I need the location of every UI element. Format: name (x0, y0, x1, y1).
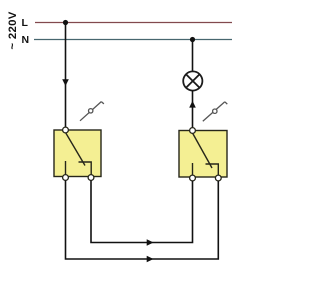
switch S1 right contact (79, 162, 92, 175)
switch S1 terminal B (88, 175, 94, 181)
arrow up to lamp (189, 101, 196, 108)
junction on L (63, 20, 68, 25)
actuator icon switch 1 (80, 102, 104, 121)
wire traveller inner (91, 181, 193, 243)
switch S2 right contact (206, 164, 219, 176)
switch S1 body (54, 130, 101, 177)
switch S2 terminal B (215, 175, 221, 181)
arrow down on L feed (62, 79, 69, 86)
svg-text:N: N (22, 34, 30, 46)
switch S2 left contact stub (192, 163, 194, 176)
wire N line (34, 39, 232, 41)
switch S2 body (179, 131, 227, 178)
wire traveller outer (66, 181, 219, 260)
junction on N (190, 37, 195, 42)
switch S1 terminal A (63, 175, 69, 181)
switch S1 mover (66, 133, 86, 166)
svg-text:L: L (22, 17, 29, 29)
wire lamp to switch 2 (192, 91, 194, 128)
wire L feed to switch 1 (65, 23, 67, 128)
switch S2 terminal A (190, 175, 196, 181)
switch S2 common terminal (190, 128, 196, 134)
lamp (183, 71, 202, 90)
arrow on inner traveller (147, 239, 154, 246)
switch S1 left contact stub (65, 161, 67, 175)
arrow on outer traveller (147, 256, 154, 263)
switch S2 mover (193, 133, 213, 168)
wire N drop to lamp (192, 40, 194, 72)
switch S1 common terminal (63, 127, 69, 133)
svg-text:~ 220V: ~ 220V (7, 11, 19, 49)
actuator icon switch 2 (203, 102, 228, 121)
wire L line (35, 22, 232, 24)
